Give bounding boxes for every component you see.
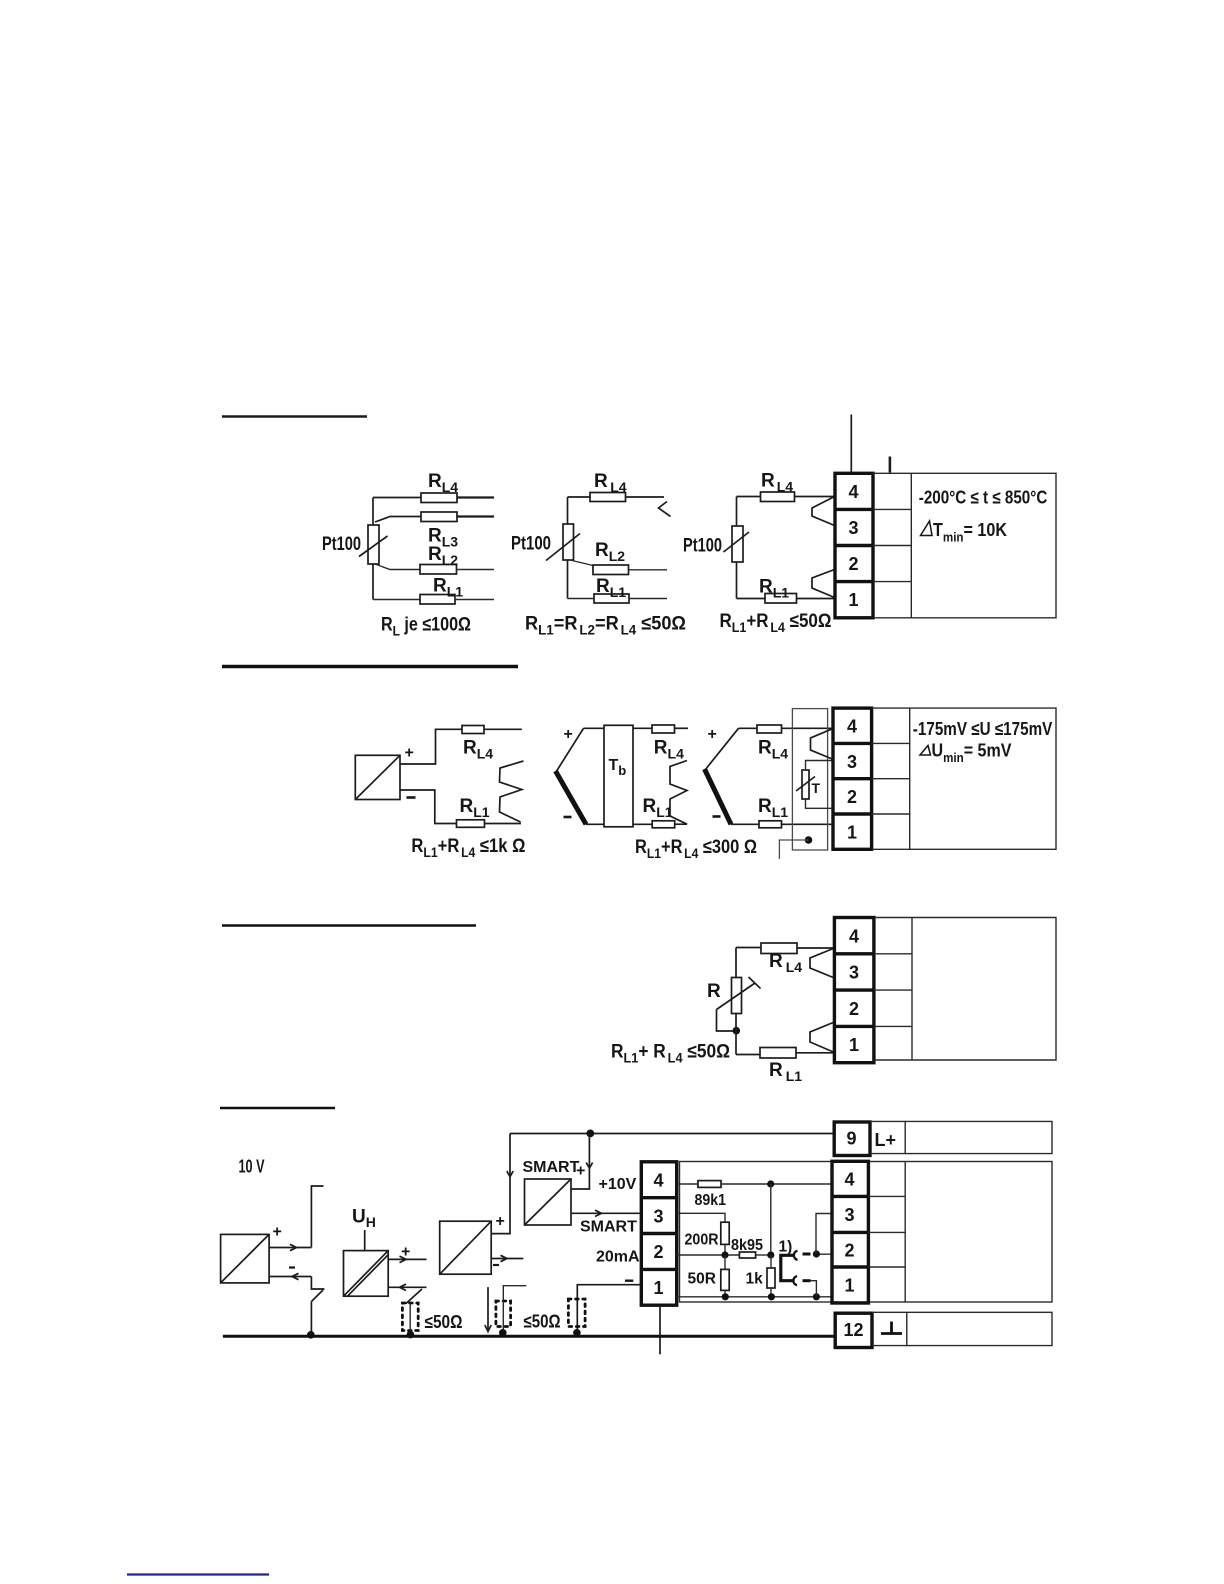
svg-text:2: 2 — [654, 1242, 664, 1262]
node: Pt100 left lead vertical (diagram 3, 2-wire) — [736, 497, 738, 599]
ground junction dot (dotted resistor 1) — [407, 1331, 415, 1339]
wire RL4 to terminal 4 (row2 diagram 3) — [782, 727, 835, 729]
svg-text:1: 1 — [654, 1278, 664, 1298]
open arrow left (source 1 minus) — [292, 1273, 299, 1279]
divider 4/3 (row 4 right) — [832, 1195, 868, 1198]
minus label (row2 diagram 1) — [407, 796, 416, 799]
junction dot (row 3) — [733, 1027, 741, 1035]
section rule 2 — [222, 665, 518, 669]
wire 1k bottom — [770, 1288, 772, 1297]
svg-text:≤50Ω: ≤50Ω — [425, 1312, 463, 1332]
svg-text:+: + — [405, 745, 414, 762]
resistor RL1 (diagram 1) — [420, 595, 455, 605]
device box outline (row 2) — [872, 708, 1056, 849]
ground symbol stem — [890, 1322, 893, 1334]
svg-text:2: 2 — [849, 554, 859, 574]
footnote rule (blue) — [127, 1573, 269, 1575]
terminal 1 wire leftwards (row 4 left column) — [577, 1285, 641, 1333]
current return arrow down — [487, 1287, 489, 1331]
load line vertical with break (source 1) — [311, 1186, 323, 1248]
ground symbol bar — [881, 1332, 902, 1335]
source box 2 double diagonal — [344, 1251, 389, 1297]
thermocouple (row2 diagram 3) thick limb — [705, 769, 732, 824]
device box outline (row 1) — [873, 473, 1056, 618]
Pt100 slash (diagram 2) — [546, 534, 580, 561]
resistor RL3 (diagram 1) — [421, 512, 457, 522]
minus wire (row2 diagram 1) — [400, 790, 457, 824]
wire 1k top — [770, 1255, 772, 1268]
terminal divider 3/2 (row 3) — [834, 988, 874, 991]
vertical from 89k1 node — [770, 1184, 772, 1255]
wire switch node to right terminal 2 — [813, 1253, 832, 1255]
resistor RL1 (row2 diagram 1) — [457, 820, 485, 828]
svg-text:Pt100: Pt100 — [683, 536, 722, 557]
minus label (source 1) — [289, 1266, 295, 1268]
resistor RL1 (row2 diagram 3) — [759, 821, 782, 828]
svg-text:+10V: +10V — [599, 1176, 637, 1193]
SMART interface box — [525, 1179, 572, 1225]
shield junction dot (row 2) — [805, 836, 813, 844]
terminal 12 outer — [835, 1313, 872, 1347]
svg-text:R: R — [707, 981, 721, 1002]
Pt100 sensor body (diagram 1, 4-wire) — [368, 525, 379, 564]
section rule 4 — [220, 1107, 335, 1109]
inner column lines (row 4 right) — [868, 1195, 905, 1197]
right column outer (row 4) — [832, 1161, 868, 1303]
input tick above second column (row 1) — [889, 457, 892, 473]
open arrow right (source 1 plus) — [290, 1244, 297, 1250]
terminal divider 2/1 (row 3) — [834, 1025, 874, 1028]
ground junction dot (source 1) — [307, 1331, 315, 1339]
compensation sensor T body — [802, 770, 809, 799]
svg-text:3: 3 — [847, 752, 857, 772]
svg-text:Pt100: Pt100 — [511, 534, 551, 555]
svg-text:2: 2 — [849, 999, 859, 1019]
T sensor bottom wire to terminal 2 — [806, 799, 834, 808]
terminal 9 outer — [834, 1122, 870, 1156]
delta symbol row 2 — [920, 746, 931, 756]
wire after RL1 (diagram 2) — [629, 598, 667, 600]
wire after RL2 (diagram 2) — [629, 569, 668, 571]
divider 2/1 (row 4 left) — [641, 1268, 676, 1271]
screened lead dotted resistor 1 — [402, 1303, 418, 1331]
Pt100 slash (diagram 1) — [359, 536, 388, 557]
wire 50R bottom — [724, 1290, 726, 1297]
svg-text:89k1: 89k1 — [695, 1192, 727, 1209]
node: Pt100 left lead vertical (diagram 2, 3-wire) — [567, 497, 569, 599]
thermocouple (row2 diagram 2) thin limb — [556, 728, 584, 772]
compensation sensor T slash — [796, 777, 815, 792]
minus label (source 3) — [493, 1264, 499, 1266]
bottom wire from Tb — [633, 823, 652, 825]
resistor 8k95 — [739, 1252, 755, 1258]
input line above terminal 4 (row 1) — [850, 415, 852, 474]
wire switch node up to right terminal 3 — [816, 1214, 832, 1254]
open arrow right (source 3 minus) — [501, 1255, 508, 1261]
terminal divider 3/2 (row 1) — [835, 544, 873, 547]
screened lead dotted resistor 2 — [496, 1301, 511, 1327]
R wiper diagonal (row 3) — [717, 983, 756, 1010]
terminal divider 4/3 (row 1) — [835, 508, 873, 511]
load line lower vertical (source 1) — [310, 1302, 312, 1337]
resistor RL4 (diagram 2) — [590, 493, 626, 502]
terminal divider 3/2 (row 2) — [833, 777, 872, 780]
svg-text:2: 2 — [845, 1241, 855, 1261]
shield wire from dot — [779, 840, 808, 859]
transmitter terminal column (row 4 left) — [641, 1162, 676, 1305]
svg-text:-200°C ≤ t ≤ 850°C: -200°C ≤ t ≤ 850°C — [919, 488, 1048, 508]
source box 1 (10V) — [221, 1234, 270, 1283]
junction dot (50R bottom) — [722, 1293, 729, 1300]
network enclosure box (row 4) — [680, 1162, 1053, 1303]
svg-text:10 V: 10 V — [239, 1157, 265, 1177]
ground junction dot (dotted resistor 2) — [499, 1329, 507, 1337]
svg-text:1): 1) — [779, 1239, 793, 1256]
thermocouple (row2 diagram 3) thin limb — [705, 728, 739, 770]
svg-text:+: + — [564, 726, 573, 743]
terminal block row 2 — [833, 708, 1056, 849]
section rule 1 — [222, 415, 367, 417]
resistor RL1 (row 3) — [760, 1048, 796, 1059]
junction dot (200R node) — [721, 1251, 728, 1258]
wire RL1 to terminal 1 (row 3) — [796, 1052, 835, 1054]
node: Pt100 left lead vertical (diagram 1) — [372, 498, 374, 600]
svg-text:SMART: SMART — [580, 1219, 637, 1236]
plus wire up to supply rail (source 3) — [491, 1134, 510, 1234]
junction dot (89k1 node) — [767, 1180, 774, 1187]
thermocouple (row2 diagram 2) thick limb — [556, 771, 587, 824]
connector chevron (diagram 2 top) — [659, 502, 671, 517]
Pt100 sensor body (diagram 2) — [563, 524, 574, 560]
terminal block row 1 — [835, 473, 1056, 618]
wire RL1 to terminal 1 (row2 diagram 3) — [782, 823, 834, 825]
mV source box (diagram 1) — [355, 755, 400, 799]
SMART box diagonal — [525, 1179, 572, 1225]
open arrow down on SMART riser — [586, 1163, 592, 1169]
wire after RL4 (diagram 1) — [457, 496, 494, 498]
plus wire with arrow (source 1) — [269, 1247, 311, 1249]
left lead vertical (row 3) — [735, 948, 737, 978]
bottom rail (terminal 1 row) — [677, 1296, 832, 1298]
inner column and device box (row 1) — [873, 508, 911, 510]
junction dot (1k bottom) — [768, 1293, 775, 1300]
jumper fork terminals 4-3 (row 1) — [812, 497, 835, 526]
top wire from Tb — [633, 727, 652, 729]
section rule 3 — [222, 924, 476, 927]
open arrow left (source 2 minus) — [400, 1284, 407, 1290]
jumper fork terminals 4-3 (row 2) — [811, 728, 834, 759]
wire RL4 row (diagram 2) — [568, 496, 591, 498]
SMART output wire to terminal 3 — [571, 1212, 641, 1214]
terminal divider 4/3 (row 3) — [834, 952, 874, 955]
svg-text:Pt100: Pt100 — [322, 534, 361, 555]
resistor RL2 (diagram 1) — [420, 565, 457, 575]
wire 50R top — [724, 1255, 726, 1269]
open arrow right (SMART output) — [595, 1210, 602, 1216]
junction dot on supply rail — [586, 1130, 594, 1138]
wiper drop wire (row 3) — [717, 1010, 737, 1032]
L+ cell — [870, 1121, 905, 1153]
Pt100 slash (diagram 3) — [724, 532, 750, 552]
resistor RL4 (row2 diagram 2) — [652, 725, 675, 733]
wire after RL4 (diagram 2) — [626, 496, 665, 498]
resistor 50R — [721, 1269, 729, 1290]
ground bus — [223, 1335, 835, 1338]
wire after RL1 (row2 diagram 1) — [485, 823, 522, 825]
resistor RL4 (row 3) — [761, 943, 797, 954]
plus wire with arrow (source 2) — [388, 1258, 426, 1260]
svg-text:SMART: SMART — [523, 1159, 580, 1176]
UH stub into box — [364, 1230, 366, 1251]
measured resistor R body (row 3) — [732, 978, 742, 1014]
ground junction dot (dotted resistor 3) — [573, 1329, 581, 1337]
svg-text:200R: 200R — [685, 1232, 719, 1249]
svg-text:≤50Ω: ≤50Ω — [524, 1312, 561, 1332]
svg-text:8k95: 8k95 — [731, 1237, 763, 1254]
switch contact lower — [793, 1276, 797, 1285]
svg-text:4: 4 — [847, 717, 857, 737]
terminal strip outer (row 2) — [833, 708, 872, 849]
svg-text:3: 3 — [654, 1207, 664, 1227]
wire terminal 2 row — [677, 1254, 740, 1256]
resistor RL1 (row2 diagram 2) — [652, 821, 675, 828]
wire 8k95 to 1k node — [756, 1254, 771, 1256]
svg-text:2: 2 — [847, 787, 857, 807]
svg-text:1: 1 — [847, 823, 857, 843]
wire RL1 row (diagram 3) — [737, 598, 766, 600]
switch common bracket — [781, 1255, 794, 1280]
svg-text:3: 3 — [845, 1205, 855, 1225]
terminal strip outer (row 3) — [834, 918, 874, 1063]
resistor RL2 (diagram 2) — [593, 565, 629, 575]
wire RL4 row (diagram 3) — [737, 496, 761, 498]
lead through dotted resistor 1 — [409, 1304, 411, 1334]
minus label (row2 diagram 2) — [564, 816, 572, 819]
junction dot (switch upper node) — [813, 1250, 820, 1257]
svg-text:1: 1 — [845, 1276, 855, 1296]
resistor 200R — [721, 1222, 729, 1244]
svg-text:+: + — [708, 726, 717, 743]
plus wire (row2 diagram 1) — [400, 729, 462, 764]
svg-text:1k: 1k — [746, 1271, 764, 1288]
stub wire into dotted resistor 2 — [503, 1286, 526, 1333]
device box outline (row 3) — [874, 918, 1056, 1061]
svg-text:+: + — [273, 1224, 282, 1241]
terminal 12 block — [835, 1312, 1052, 1347]
jumper fork terminals 2-1 (row 3) — [810, 1022, 835, 1053]
terminal block row 3 — [834, 918, 1056, 1063]
wire after RL4 (row2 diagram 1) — [484, 728, 522, 730]
terminal column (row 4 right) — [832, 1161, 905, 1303]
mV source box diagonal — [355, 755, 400, 799]
terminal strip outer (row 1) — [835, 473, 873, 618]
svg-text:4: 4 — [845, 1170, 855, 1190]
wire RL3 jog (diagram 1) — [375, 517, 421, 523]
wires into Tb box — [584, 727, 605, 729]
divider 3/2 (row 4 left) — [641, 1232, 676, 1235]
arrowhead (current return) — [485, 1325, 491, 1332]
delta symbol row 1 — [921, 521, 933, 536]
cold junction compensation box (row 2) — [792, 709, 827, 850]
svg-text:3: 3 — [849, 963, 859, 983]
svg-text:50R: 50R — [688, 1271, 716, 1288]
wire RL1 to terminal 1 (diagram 3) — [797, 598, 835, 600]
left column outer (row 4) — [641, 1162, 676, 1305]
terminal 9 block — [834, 1121, 1052, 1155]
resistor RL4 (diagram 3) — [761, 492, 795, 502]
junction dot (1k node) — [767, 1251, 774, 1258]
switch dash lower — [803, 1279, 811, 1282]
svg-text:1: 1 — [849, 590, 859, 610]
terminal function minus dash — [625, 1279, 633, 1281]
terminal divider 2/1 (row 2) — [833, 812, 872, 815]
wire RL2 jog (diagram 1) — [375, 564, 420, 570]
open arrow right (source 2 plus) — [400, 1256, 407, 1262]
break flag diagonal (source 2) — [406, 1289, 422, 1304]
svg-text:1: 1 — [849, 1035, 859, 1055]
supply rail wire to terminal 9 — [510, 1133, 834, 1135]
wire after RL3 (diagram 1) — [457, 515, 494, 517]
svg-text:+: + — [576, 1163, 585, 1180]
wire RL4 row (diagram 1) — [373, 497, 421, 499]
minus wire with arrow (source 1) — [269, 1276, 311, 1278]
resistor 1k — [767, 1268, 775, 1288]
break flag diagonal (source 1) — [311, 1290, 323, 1302]
plug connector zigzag (row2 diagram 2) — [670, 761, 687, 825]
divider 2/1 (row 4 right) — [832, 1265, 868, 1268]
wire switch lower to bottom rail — [811, 1281, 817, 1297]
svg-text:3: 3 — [849, 518, 859, 538]
inner column lines (row 2) — [872, 742, 910, 744]
svg-text:L+: L+ — [875, 1130, 897, 1150]
svg-text:4: 4 — [849, 927, 859, 947]
Pt100 sensor body (diagram 3) — [732, 526, 743, 562]
svg-text:12: 12 — [844, 1320, 864, 1340]
resistor RL1 (diagram 3) — [765, 594, 797, 604]
top wire to RL4 (row 3) — [736, 947, 761, 949]
wire after RL1 (diagram 1) — [455, 599, 494, 601]
minus label (row2 diagram 3) — [713, 815, 721, 818]
bottom wire (row2 diagram 3) — [731, 823, 759, 825]
wire after RL4 (row2 diagram 2) — [675, 727, 689, 729]
jumper fork terminals 4-3 (row 3) — [810, 948, 835, 978]
svg-text:T: T — [812, 780, 821, 796]
svg-text:4: 4 — [654, 1171, 664, 1191]
source box 3 — [440, 1221, 492, 1274]
wire RL1 row (diagram 1) — [373, 599, 420, 601]
terminal divider 4/3 (row 2) — [833, 742, 872, 745]
ground cell — [872, 1312, 907, 1345]
wire after RL2 (diagram 1) — [457, 569, 495, 571]
terminal 12 device box — [907, 1312, 1052, 1345]
SMART plus wire to supply rail — [571, 1134, 589, 1190]
switch contact upper — [794, 1251, 798, 1260]
terminal divider 2/1 (row 1) — [835, 580, 873, 583]
resistor RL4 (diagram 1) — [421, 493, 457, 503]
wire RL1 row (diagram 2) — [568, 598, 595, 600]
resistor 89k1 — [698, 1181, 721, 1188]
source box 2 (UH) — [344, 1251, 389, 1297]
plug connector zigzag (row2 diagram 1) — [500, 761, 524, 822]
screened lead dotted resistor 3 — [568, 1299, 585, 1327]
R wiper tick (row 3) — [749, 977, 761, 989]
divider 4/3 (row 4 left) — [641, 1196, 676, 1199]
resistor RL1 (diagram 2) — [594, 594, 629, 603]
wire 200R to node — [724, 1244, 726, 1255]
divider 3/2 (row 4 right) — [832, 1231, 868, 1234]
svg-text:20mA: 20mA — [596, 1249, 640, 1266]
resistor RL4 (row2 diagram 1) — [462, 726, 484, 734]
top wire (row2 diagram 3) — [739, 727, 758, 729]
minus wire with arrow (source 2) — [388, 1286, 426, 1288]
wire terminal 4 to 89k1 — [677, 1183, 698, 1185]
terminal 9 device box — [905, 1121, 1052, 1153]
svg-text:+: + — [496, 1213, 505, 1230]
stub below terminal 1 (row 4 left) — [659, 1305, 661, 1354]
source box 1 diagonal — [221, 1234, 270, 1283]
wire terminal 3 down to 200R — [677, 1213, 725, 1222]
svg-text:9: 9 — [847, 1129, 857, 1149]
switch dash upper — [803, 1253, 811, 1256]
Tb reference junction box — [604, 725, 633, 827]
wire RL4 to terminal 4 (diagram 3) — [795, 496, 835, 498]
source box 3 diagonal — [440, 1221, 492, 1274]
jumper fork terminals 2-1 (row 1) — [812, 570, 835, 598]
wire RL2 jog (diagram 2) — [570, 560, 593, 570]
lower lead vertical (row 3) — [735, 1014, 737, 1055]
junction dot (switch bottom) — [813, 1293, 820, 1300]
inner column lines (row 3) — [874, 953, 912, 955]
minus wire with arrow (source 3) — [491, 1258, 523, 1260]
wire RL4 to terminal 4 (row 3) — [797, 947, 835, 949]
open arrow down on riser (source 3) — [507, 1171, 513, 1177]
svg-text:-175mV ≤U ≤175mV: -175mV ≤U ≤175mV — [913, 719, 1053, 739]
resistor RL4 (row2 diagram 3) — [757, 725, 782, 733]
svg-text:4: 4 — [849, 482, 859, 502]
T sensor top wire to terminal 3 — [806, 761, 834, 771]
bottom wire to RL1 (row 3) — [736, 1054, 760, 1056]
wire 89k1 to right terminal 4 — [721, 1183, 832, 1185]
